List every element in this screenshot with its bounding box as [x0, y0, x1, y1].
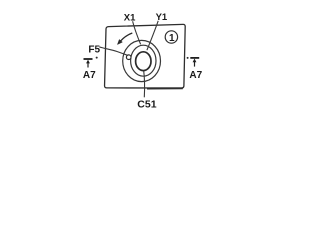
- circled 1 marker: [165, 31, 177, 43]
- svg-text:A7: A7: [189, 70, 202, 81]
- right datum A7: bar: [190, 57, 199, 59]
- svg-text:X1: X1: [124, 13, 136, 24]
- svg-text:1: 1: [169, 33, 175, 44]
- inner circle (bold): [136, 52, 151, 71]
- left datum dot: [96, 57, 98, 59]
- C51 leader: [143, 71, 146, 98]
- left datum A7: arrow up: [87, 63, 89, 68]
- svg-text:F5: F5: [88, 44, 100, 55]
- X1 leader: [133, 21, 141, 44]
- svg-text:A7: A7: [83, 70, 96, 81]
- F5 leader: [99, 47, 128, 56]
- left datum A7: bar: [84, 58, 93, 60]
- bottom edge thick segment: [147, 87, 183, 89]
- right datum dot: [187, 57, 189, 59]
- middle circle: [131, 45, 156, 76]
- rotation arrow arc: [119, 33, 132, 43]
- rotation arrow head: [117, 40, 122, 45]
- Y1 leader: [147, 21, 158, 50]
- right datum A7: arrow up: [194, 61, 196, 66]
- housing rectangle: [105, 24, 186, 88]
- svg-text:C51: C51: [137, 98, 156, 110]
- outer circle: [123, 40, 161, 81]
- small circle F5 target: [126, 55, 131, 60]
- svg-text:Y1: Y1: [156, 12, 168, 23]
